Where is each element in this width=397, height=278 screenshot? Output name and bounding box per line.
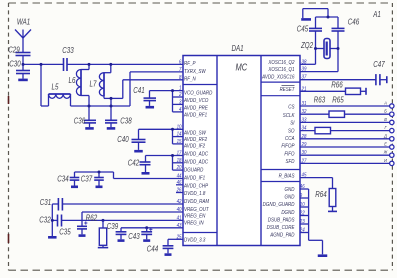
svg-text:C37: C37 (81, 173, 93, 183)
svg-text:C46: C46 (348, 16, 360, 26)
svg-text:45: 45 (302, 172, 307, 178)
svg-text:AVDD_SW: AVDD_SW (183, 130, 207, 137)
svg-text:32: 32 (302, 109, 307, 115)
svg-text:1: 1 (179, 85, 182, 91)
svg-text:C33: C33 (62, 45, 74, 55)
svg-text:SCLK: SCLK (283, 112, 295, 119)
svg-text:C44: C44 (147, 244, 158, 254)
svg-text:DGUARD: DGUARD (184, 167, 204, 174)
svg-text:7: 7 (179, 67, 182, 73)
svg-text:31: 31 (302, 101, 307, 107)
svg-text:C38: C38 (120, 116, 132, 126)
svg-text:17: 17 (177, 150, 182, 156)
svg-text:A1: A1 (372, 9, 380, 19)
svg-text:27: 27 (301, 158, 307, 164)
svg-text:L7: L7 (90, 79, 98, 89)
svg-text:XOSC16_Q1: XOSC16_Q1 (267, 67, 294, 74)
svg-text:В: В (384, 117, 387, 122)
svg-text:42: 42 (177, 199, 182, 205)
svg-text:9: 9 (300, 193, 303, 199)
svg-text:6: 6 (179, 59, 182, 65)
svg-text:C41: C41 (133, 85, 144, 95)
svg-text:XOSC16_Q2: XOSC16_Q2 (267, 59, 294, 66)
svg-text:28: 28 (301, 133, 307, 139)
svg-text:29: 29 (301, 142, 307, 148)
svg-text:21: 21 (301, 86, 307, 92)
svg-text:30: 30 (302, 150, 307, 156)
svg-text:C35: C35 (59, 227, 71, 237)
svg-text:R63: R63 (314, 95, 326, 105)
svg-text:40: 40 (177, 207, 182, 213)
svg-text:И: И (384, 158, 388, 163)
svg-text:VREG_EN: VREG_EN (184, 213, 206, 220)
svg-text:46: 46 (300, 184, 305, 190)
svg-text:C31: C31 (40, 197, 51, 207)
svg-text:DVDD_RAM: DVDD_RAM (184, 199, 210, 206)
svg-text:MC: MC (235, 61, 247, 72)
svg-text:38: 38 (302, 59, 307, 65)
svg-text:TXRX_SW: TXRX_SW (184, 68, 207, 75)
svg-text:C40: C40 (117, 134, 129, 144)
svg-text:8: 8 (179, 74, 182, 80)
svg-text:RF_P: RF_P (184, 61, 196, 68)
svg-text:41: 41 (177, 215, 182, 221)
svg-text:20: 20 (176, 165, 182, 171)
svg-text:22: 22 (299, 210, 305, 216)
svg-text:RESET: RESET (280, 86, 296, 93)
svg-text:SFD: SFD (286, 159, 295, 166)
svg-text:C42: C42 (128, 158, 139, 168)
svg-text:DGND: DGND (281, 209, 294, 216)
svg-text:44: 44 (177, 173, 182, 179)
svg-text:39: 39 (302, 66, 307, 72)
svg-text:C30: C30 (9, 59, 21, 69)
svg-text:37: 37 (302, 74, 307, 80)
svg-text:Ж: Ж (383, 149, 388, 154)
svg-text:DSUB_PADS: DSUB_PADS (268, 217, 295, 224)
svg-text:C29: C29 (8, 45, 19, 55)
svg-text:L6: L6 (69, 75, 77, 85)
svg-text:L5: L5 (52, 82, 60, 92)
svg-text:18: 18 (177, 157, 182, 163)
svg-text:C45: C45 (297, 24, 309, 34)
svg-text:SI: SI (290, 120, 295, 127)
svg-text:AGND_PAD: AGND_PAD (269, 232, 294, 239)
svg-text:C39: C39 (107, 221, 118, 231)
svg-text:AVDD_CHP: AVDD_CHP (183, 183, 209, 190)
svg-text:SO: SO (288, 128, 295, 135)
svg-text:14: 14 (177, 131, 182, 137)
svg-text:Б: Б (384, 108, 387, 113)
svg-text:AVDD_VCO: AVDD_VCO (183, 98, 208, 105)
svg-text:R62: R62 (86, 213, 97, 223)
svg-text:34: 34 (302, 125, 307, 131)
svg-text:Д: Д (383, 133, 387, 138)
svg-text:GND: GND (285, 187, 295, 194)
svg-text:DA1: DA1 (231, 43, 243, 53)
svg-text:DGND_GUARD: DGND_GUARD (263, 202, 295, 209)
svg-text:Г: Г (384, 125, 387, 130)
svg-text:15: 15 (177, 139, 182, 145)
svg-text:RF_N: RF_N (184, 76, 196, 83)
svg-text:GND: GND (285, 194, 295, 201)
svg-text:FIFO: FIFO (284, 151, 294, 158)
svg-text:R66: R66 (331, 79, 343, 89)
svg-text:26: 26 (176, 187, 182, 193)
svg-text:25: 25 (176, 234, 182, 240)
svg-text:43: 43 (177, 222, 182, 228)
svg-text:C36: C36 (74, 116, 86, 126)
svg-text:AVDD_XOSC16: AVDD_XOSC16 (261, 74, 294, 81)
svg-text:AVDD_IF2: AVDD_IF2 (183, 143, 205, 150)
svg-text:10: 10 (177, 124, 182, 130)
svg-text:ZQ2: ZQ2 (300, 40, 313, 50)
svg-text:R_BIAS: R_BIAS (279, 173, 295, 180)
svg-text:AVDD_ADC: AVDD_ADC (183, 151, 208, 158)
svg-text:2: 2 (178, 92, 182, 98)
svg-text:AVDD_IF1: AVDD_IF1 (183, 175, 205, 182)
svg-text:46: 46 (177, 179, 182, 185)
svg-text:3: 3 (179, 99, 182, 105)
svg-text:WA1: WA1 (17, 17, 30, 27)
svg-text:CCA: CCA (285, 136, 295, 143)
svg-text:R65: R65 (332, 95, 344, 105)
svg-text:Е: Е (384, 141, 387, 146)
svg-text:AVDD_PRE: AVDD_PRE (183, 105, 208, 112)
svg-text:AVDD_RF1: AVDD_RF1 (183, 112, 207, 119)
svg-text:C43: C43 (128, 231, 140, 241)
svg-text:4: 4 (179, 107, 182, 113)
svg-text:VREG_IN: VREG_IN (184, 220, 204, 227)
svg-text:DVDD_3.3: DVDD_3.3 (184, 237, 206, 244)
svg-text:33: 33 (302, 117, 307, 123)
svg-text:23: 23 (299, 219, 305, 225)
svg-text:24: 24 (299, 227, 305, 233)
svg-text:AVDD_ADC: AVDD_ADC (183, 159, 208, 166)
svg-text:10: 10 (300, 202, 305, 208)
svg-text:C34: C34 (57, 173, 68, 183)
svg-text:DSUB_CORE: DSUB_CORE (267, 225, 295, 232)
svg-text:А: А (383, 100, 387, 105)
svg-text:C47: C47 (373, 59, 385, 69)
svg-text:VREG_OUT: VREG_OUT (184, 207, 209, 214)
svg-text:CS: CS (288, 104, 295, 111)
svg-text:R64: R64 (315, 189, 326, 199)
svg-text:VCO_GUARD: VCO_GUARD (184, 90, 213, 97)
svg-text:DVDD_1.8: DVDD_1.8 (184, 191, 206, 198)
svg-text:C32: C32 (39, 215, 50, 225)
svg-text:FIFOP: FIFOP (281, 143, 295, 150)
